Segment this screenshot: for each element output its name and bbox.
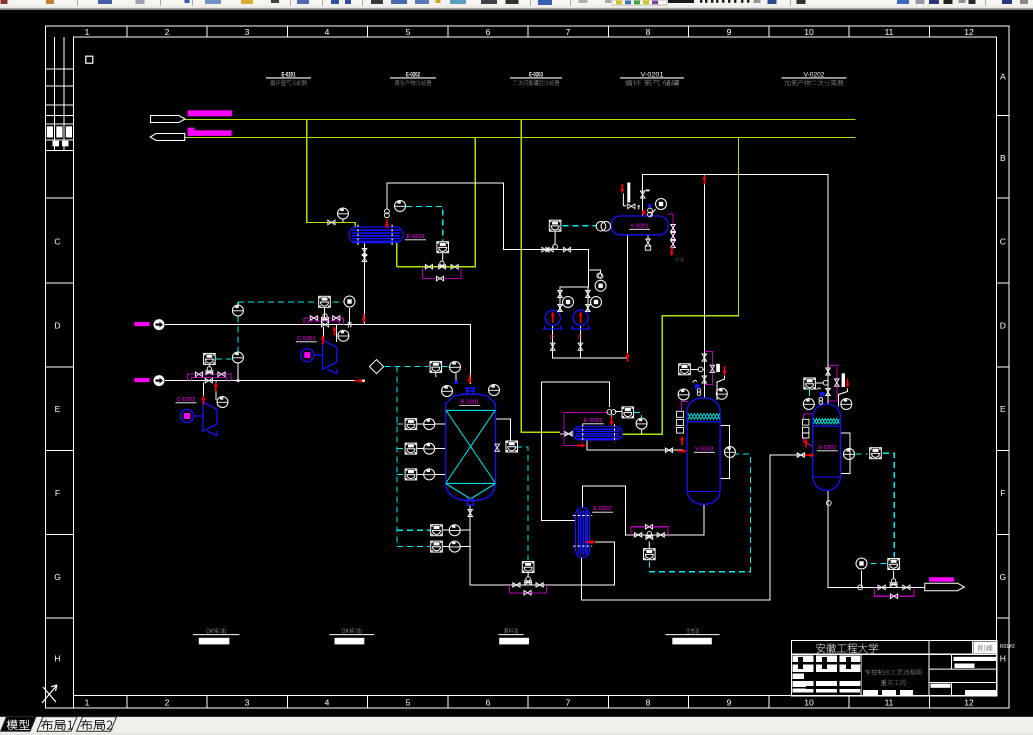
svg-text:10: 10: [804, 27, 814, 37]
svg-text:V-0203: V-0203: [695, 446, 713, 452]
svg-text:R01#2: R01#2: [1000, 644, 1015, 650]
svg-text:A: A: [1000, 72, 1006, 82]
svg-text:5: 5: [406, 27, 411, 37]
svg-text:E-0202: E-0202: [593, 506, 611, 512]
svg-text:V-0201: V-0201: [630, 223, 648, 229]
svg-text:12: 12: [964, 27, 974, 37]
svg-text:P: P: [550, 335, 554, 342]
svg-text:8: 8: [646, 698, 651, 708]
svg-text:1: 1: [85, 698, 90, 708]
svg-text:E-0203: E-0203: [584, 418, 602, 424]
svg-text:E-0202: E-0202: [406, 71, 420, 78]
svg-text:C: C: [54, 237, 60, 247]
svg-text:1: 1: [85, 27, 90, 37]
svg-text:V-0202: V-0202: [804, 71, 825, 78]
svg-text:F: F: [55, 488, 60, 498]
svg-text:P: P: [578, 335, 582, 342]
svg-text:8: 8: [646, 27, 651, 37]
svg-text:C-0201: C-0201: [297, 336, 316, 342]
svg-text:3: 3: [245, 27, 250, 37]
svg-text:9: 9: [727, 698, 732, 708]
svg-text:6: 6: [486, 27, 491, 37]
svg-text:R-0201: R-0201: [460, 400, 479, 406]
svg-text:2: 2: [165, 698, 170, 708]
svg-text:E-0203: E-0203: [529, 71, 543, 78]
svg-text:E-0201: E-0201: [406, 234, 424, 240]
svg-text:G: G: [999, 572, 1006, 582]
svg-text:12: 12: [964, 698, 974, 708]
svg-text:11: 11: [885, 698, 894, 708]
svg-text:4: 4: [325, 698, 330, 708]
svg-text:E: E: [1000, 404, 1006, 414]
svg-text:9: 9: [727, 27, 732, 37]
svg-text:F: F: [1000, 488, 1005, 498]
svg-text:D: D: [54, 320, 60, 330]
svg-text:C-0202: C-0202: [177, 397, 196, 403]
svg-text:C: C: [1000, 237, 1006, 247]
svg-text:7: 7: [566, 27, 571, 37]
svg-text:H: H: [1000, 654, 1006, 664]
svg-text:3: 3: [245, 698, 250, 708]
svg-text:V-0201: V-0201: [641, 71, 664, 78]
svg-text:H: H: [54, 654, 60, 664]
svg-text:10: 10: [804, 698, 814, 708]
svg-text:5: 5: [406, 698, 411, 708]
svg-text:V-0202: V-0202: [818, 445, 836, 451]
svg-text:6: 6: [486, 698, 491, 708]
svg-text:B: B: [1000, 153, 1006, 163]
svg-text:11: 11: [885, 27, 894, 37]
svg-text:D: D: [1000, 320, 1006, 330]
svg-text:E-0201: E-0201: [282, 71, 296, 78]
svg-text:7: 7: [566, 698, 571, 708]
svg-text:G: G: [54, 572, 61, 582]
svg-text:4: 4: [325, 27, 330, 37]
svg-text:2: 2: [165, 27, 170, 37]
svg-text:E: E: [55, 404, 61, 414]
